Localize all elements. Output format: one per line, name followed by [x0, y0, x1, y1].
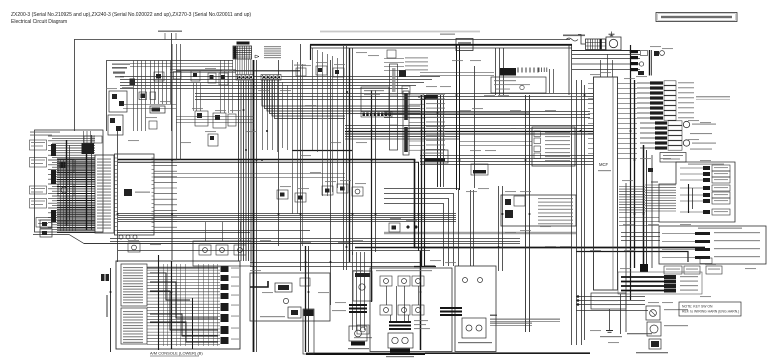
small relay boxes bottom-left	[40, 220, 52, 237]
wire rows y72-78 center	[420, 73, 494, 76]
MCF output connector column B	[640, 121, 682, 150]
wire pilot bus band y214-222	[117, 214, 456, 233]
wire harness band y112-117 with shield	[384, 112, 590, 118]
left panel header text	[30, 132, 60, 136]
relay K5	[219, 73, 228, 85]
junction dark blob x500	[500, 68, 538, 76]
ICF connector strip with pins	[361, 112, 392, 118]
A/M console connector blocks right edge	[221, 266, 240, 344]
hour meter narrow box	[303, 309, 314, 354]
wire lower cab bus band y238-251	[84, 239, 705, 251]
starter cable terminal bars	[630, 50, 638, 71]
solenoid relay SV2	[398, 276, 410, 286]
relay box cluster outer	[193, 241, 251, 266]
MCF controller tall box	[594, 77, 618, 290]
relay box row2 K6	[195, 111, 208, 126]
wire heavy vertical x630	[630, 45, 632, 300]
wire pin comb x539-547	[539, 68, 547, 73]
switch panel tall box	[95, 155, 114, 233]
wire left column verticals x133-170	[134, 61, 171, 132]
left switch panel box	[35, 130, 104, 232]
wire harness band upper (5 lines)	[120, 77, 440, 89]
wire vertical pair x498-502	[499, 186, 503, 271]
wire solenoid feed verticals x352-364	[353, 252, 365, 330]
wire rows labels top y58-70	[384, 57, 428, 70]
wire vertical bundle B below CN2 turning east	[262, 80, 420, 119]
horn left group box	[348, 326, 369, 349]
washer motor box	[58, 160, 74, 172]
relay component x154 y72	[154, 72, 164, 81]
relay R13	[216, 245, 228, 255]
dense harness between panel and switch box	[57, 159, 95, 233]
fusible link label marks at top	[158, 31, 182, 40]
solenoid relay SV1	[380, 276, 392, 286]
wire heavy vertical x634	[634, 80, 636, 268]
machine body boundary double line	[310, 32, 572, 96]
wire bottom left label	[332, 310, 346, 311]
drawing number label box top-right	[656, 13, 737, 22]
monitor unit box	[115, 154, 155, 235]
wire heavy vertical bus x421-424	[422, 95, 436, 266]
svg-text:Electrical Circuit Diagram: Electrical Circuit Diagram	[11, 19, 67, 25]
wire vertical pair x470-473 to travel alarm	[471, 190, 474, 266]
wire fuse box drops	[236, 59, 251, 75]
fuse box circuit list text	[264, 46, 281, 58]
wire band to relay box y155-165	[420, 156, 593, 165]
MCF pin ladder upper	[588, 84, 637, 159]
inner cab boundary	[107, 61, 234, 132]
wire verticals x176-232	[177, 44, 233, 160]
left panel terminal bars	[51, 144, 56, 222]
security horn boxes	[139, 92, 156, 100]
relay R15 center	[352, 187, 363, 196]
wire console elbow runs	[147, 268, 218, 342]
relay K4	[208, 73, 216, 83]
battery hatched block	[578, 35, 606, 50]
wire rows y173-180 mid	[154, 174, 345, 178]
small component box x150 y122	[123, 105, 176, 130]
note box lower right	[679, 302, 741, 316]
wire rows y135-160 right of cab strip	[460, 142, 532, 146]
wire arrow mark y97	[418, 95, 438, 100]
connector pair left of console	[101, 274, 109, 281]
fuel pump relay	[649, 339, 661, 349]
wire vertical drop x171 from top	[171, 33, 173, 131]
starter small box with circle	[354, 325, 372, 338]
fuse box FB1 crosshatched	[233, 42, 259, 60]
relay R6	[333, 68, 344, 77]
diode D1	[389, 223, 417, 232]
connector block top of panel	[82, 131, 95, 154]
relay above console R11	[128, 243, 140, 252]
relay R8	[295, 193, 306, 202]
junction connector box y152	[660, 153, 686, 163]
relay box right-center	[532, 127, 575, 166]
ground symbol above alternator	[609, 32, 615, 37]
wire drops into MCF top	[601, 54, 613, 77]
wire pump control lines y262-266	[250, 263, 420, 267]
fuel pump motor	[647, 322, 688, 336]
starter relay connectors	[638, 50, 664, 76]
pressure sensor P1	[683, 121, 716, 127]
A/M console internal wiring	[147, 264, 220, 346]
wire alternator charge lines	[572, 51, 640, 70]
solenoid relay SV3	[412, 276, 424, 286]
A/M console lower outer box	[116, 261, 240, 349]
wire heavy bus y160 turning down x414 then east	[118, 160, 705, 252]
svg-text:REF. to WIRING HARN (ENG.HARN.: REF. to WIRING HARN (ENG.HARN.)	[682, 310, 739, 314]
MCF pin ladder mid	[619, 187, 645, 213]
wire drop verticals x494-506	[496, 48, 504, 95]
wire vertical x330	[330, 60, 332, 305]
junction dots on buses	[110, 51, 645, 293]
fusible link symbols on battery feed	[563, 35, 585, 42]
wire heavy segment y150	[292, 150, 352, 152]
pump coil stripes center	[389, 322, 411, 329]
travel alarm box	[440, 266, 496, 352]
solenoid relay SV5	[398, 305, 410, 315]
connector circles below monitor	[119, 235, 137, 239]
switch box y195 center-right	[501, 195, 576, 226]
wire right verticals x571-584	[572, 44, 585, 345]
wire vertical bus x437-443	[438, 95, 444, 187]
connector strip x403 dark	[403, 91, 409, 155]
connector strip CN1 dark	[236, 75, 253, 81]
handwritten area label	[112, 64, 130, 78]
svg-text:A/M CONSOLE (LOWER) (B): A/M CONSOLE (LOWER) (B)	[150, 351, 203, 356]
wire heavy console bus verticals	[159, 255, 193, 350]
wire vertical x110 console feed	[110, 268, 112, 352]
wire vertical bus cluster x343-352	[344, 46, 353, 270]
wire relay feed drops	[206, 222, 241, 241]
relay R7	[277, 190, 288, 199]
cab harness vertical with label	[106, 268, 111, 352]
wire rows y217-225 to ECM box	[619, 218, 659, 226]
alternator with circle	[606, 37, 621, 50]
cab harness connector strip tall	[390, 64, 398, 150]
wire heavy vertical pair x456-460	[457, 44, 475, 190]
terminal boxes row y266	[664, 266, 722, 274]
connector strip CN2 dark	[261, 75, 281, 81]
wire harness band y93-100	[195, 94, 593, 100]
misc component value labels	[106, 46, 756, 343]
wire nested corner drops to pump valve unit	[384, 189, 459, 267]
fuel feed pump sensor	[646, 306, 688, 320]
wire harness band y125-140	[345, 126, 593, 140]
wire rows to fuel pump	[576, 295, 648, 310]
relay R14	[234, 245, 246, 255]
A/M console label	[150, 351, 203, 357]
wire vertical bus x172	[171, 44, 173, 260]
wire heavy row y70.8	[176, 70, 300, 72]
ground mark near engine harness	[648, 168, 658, 182]
components right of fuse box small	[387, 50, 410, 94]
solenoid relay SV4	[380, 305, 392, 315]
svg-text:NOTE: KEY SW ON: NOTE: KEY SW ON	[682, 305, 713, 309]
wire vertical x626	[625, 183, 627, 332]
wire vertical x300	[300, 44, 302, 271]
relay box row2 K8	[228, 114, 236, 126]
component x173 y71	[174, 72, 182, 80]
relay box K2	[108, 115, 123, 135]
svg-text:ZX200-3 (Serial No.210925 and: ZX200-3 (Serial No.210925 and up),ZX240-…	[11, 12, 251, 18]
wire heavy vertical x420 to pump unit	[414, 251, 436, 350]
relay box K1	[109, 91, 127, 112]
wire vertical x117 cab	[117, 131, 119, 262]
engine sensor group box upper-right	[659, 162, 735, 222]
wire rows y69-75 to strips	[130, 64, 236, 73]
light switch box with circle	[58, 184, 74, 196]
left panel wire rows dense	[48, 136, 95, 230]
wire main top boundary	[74, 39, 570, 41]
relay box K9	[208, 134, 218, 146]
ICF controller box	[361, 87, 389, 111]
solenoid relay SV6	[412, 305, 424, 315]
wire vertical x278	[278, 60, 280, 246]
wire center column verticals	[263, 48, 338, 246]
wire vertical bundle A below CN1	[239, 81, 252, 262]
fuel pump label	[627, 333, 668, 353]
A/M console switch list upper	[121, 264, 147, 306]
wire verticals bottom right with ground	[600, 294, 622, 337]
fuse list box bottom	[36, 218, 52, 228]
key switch box bottom	[250, 273, 330, 321]
relay box row2 K7	[213, 113, 226, 128]
pressure sensor P2	[683, 133, 716, 150]
left panel label boxes	[30, 140, 47, 208]
coil stripes left group	[349, 305, 367, 312]
wire gray shield band y233	[384, 232, 576, 235]
wire verticals x549-553	[550, 69, 554, 93]
wire engine rows into sensor box	[621, 233, 660, 241]
relay R5	[316, 66, 327, 75]
wire rows y116-123	[176, 117, 254, 123]
wire solenoid unit internal verticals	[387, 286, 419, 322]
cab harness boundary lower-left	[33, 235, 430, 244]
A/M console switch list lower	[121, 308, 147, 344]
solenoid valve unit box	[370, 268, 452, 352]
relay R12	[199, 245, 211, 255]
connector box on top boundary	[440, 34, 473, 51]
wire rows into sensor group	[645, 185, 676, 211]
relay K3	[191, 71, 200, 81]
relay R10	[337, 184, 348, 193]
wire left boundary vertical	[74, 40, 76, 132]
solenoid unit label	[376, 270, 432, 271]
relay pair above panel	[84, 136, 102, 143]
wire heavy line y251 east	[576, 252, 688, 263]
wire heavy verticals in left panel	[67, 135, 92, 230]
ground terminal block	[640, 264, 648, 272]
connector junction box x421	[421, 150, 448, 163]
relay R9	[322, 186, 333, 195]
pilot pump with circles	[386, 333, 414, 357]
glow plug heavy leads	[618, 272, 702, 294]
pump labels small text	[414, 320, 430, 329]
MCF bottom connector box	[591, 293, 626, 309]
wire heavy frame ground bottom	[306, 352, 590, 355]
alternator signal box lower-right	[659, 226, 766, 264]
wire vertical pair bottom center x305-308	[306, 246, 309, 352]
fuse holder flat box	[491, 77, 546, 93]
horn SW component	[294, 65, 306, 77]
wire heavy vertical x643 engine harness	[644, 145, 653, 270]
component x129 y78	[130, 79, 136, 86]
MCF output connector column A	[637, 81, 730, 120]
speaker driver box	[150, 106, 165, 113]
svg-text:MCF: MCF	[599, 162, 609, 167]
wire monitor outputs right	[154, 160, 177, 227]
connector block x471	[471, 164, 488, 175]
wire pin rows with labels x412-445	[409, 94, 445, 150]
note text center bottom	[490, 315, 560, 326]
wire heavy vertical bus x253	[254, 60, 257, 352]
wire vertical pair x525-529	[526, 95, 530, 332]
starter motor box	[353, 271, 372, 301]
wire vertical bus x371	[372, 90, 376, 302]
